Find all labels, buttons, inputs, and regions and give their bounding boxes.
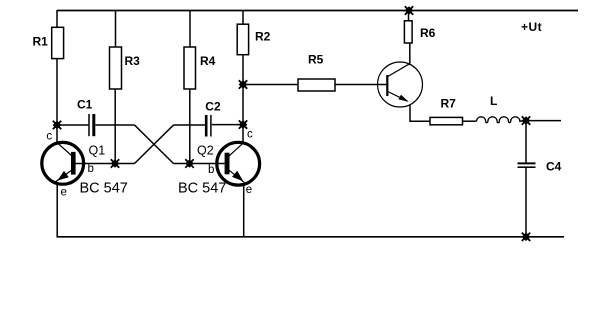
wire top supply rail (57, 10, 578, 12)
wire R5 right lead (335, 84, 387, 86)
resistor R3 (110, 47, 141, 89)
svg-text:c: c (247, 129, 253, 141)
wire output right (526, 120, 561, 122)
capacitor C2 (205, 99, 221, 136)
wire C2 right lead (212, 124, 243, 126)
inductor L (477, 94, 520, 123)
svg-text:c: c (46, 131, 52, 143)
wire Q2 base segment (174, 163, 225, 165)
svg-text:C1: C1 (77, 97, 93, 111)
capacitor C4 (518, 159, 562, 173)
wire R2 top lead (242, 10, 244, 24)
svg-text:+Ut: +Ut (521, 20, 542, 34)
wire Q2 emitter lead (243, 185, 245, 237)
wire R4 bottom lead (189, 89, 191, 164)
svg-text:R7: R7 (441, 97, 457, 111)
wire C4 bottom lead (525, 168, 527, 237)
wire cross-coupling diagonal C1 to Q2 base (135, 125, 174, 164)
svg-text:R2: R2 (255, 29, 271, 43)
wire L right lead (519, 120, 526, 123)
wire R5 left lead (243, 84, 298, 86)
transistor Q1 (42, 142, 84, 184)
wire R6 top lead (408, 10, 410, 21)
node Q1 collector junction (53, 121, 61, 129)
wire Q1 base segment (76, 163, 135, 165)
wire C1 right lead (95, 124, 134, 126)
svg-text:R3: R3 (125, 54, 141, 68)
node R2 / R5 junction (239, 80, 247, 88)
svg-text:BC 547: BC 547 (80, 180, 128, 196)
svg-text:BC 547: BC 547 (178, 180, 226, 196)
wire C2 left lead (174, 124, 206, 126)
resistor R7 (430, 97, 463, 125)
capacitor C1 (77, 97, 94, 136)
resistor R1 (33, 27, 64, 58)
transistor Q2 (217, 142, 260, 185)
transistor Q3 (378, 62, 423, 107)
wire R1 bottom lead (56, 59, 58, 125)
wire bottom ground rail (57, 236, 565, 238)
svg-text:Q1: Q1 (89, 143, 106, 157)
resistor R4 (184, 47, 216, 89)
svg-text:e: e (246, 184, 252, 196)
svg-text:L: L (490, 94, 497, 108)
node Q2 base junction (185, 159, 193, 167)
wire C1 left lead (57, 124, 88, 126)
resistor R2 (237, 24, 270, 55)
resistor R5 (298, 53, 335, 92)
svg-text:R6: R6 (420, 26, 436, 40)
wire R2 bottom lead (242, 55, 244, 125)
wire Q1 emitter lead (56, 185, 58, 237)
resistor R6 (404, 21, 435, 43)
wire C4 top lead (525, 121, 527, 163)
wire Q2 collector lead (242, 125, 244, 143)
wire R4 top lead (189, 10, 191, 47)
svg-text:b: b (88, 163, 94, 175)
svg-text:C2: C2 (205, 99, 221, 113)
wire R3 top lead (115, 10, 117, 47)
node Q2 collector junction (239, 120, 247, 128)
wire R7 right lead (463, 120, 477, 122)
svg-text:R1: R1 (33, 34, 49, 48)
wire R1 top lead (56, 10, 58, 27)
wire Q3 collector lead (409, 43, 411, 63)
svg-text:b: b (208, 164, 214, 176)
svg-text:Q2: Q2 (197, 143, 214, 157)
wire cross-coupling diagonal Q1 base to C2 (135, 125, 174, 164)
node output junction L / C4 (522, 116, 530, 124)
svg-text:e: e (61, 187, 67, 199)
svg-text:R4: R4 (200, 54, 216, 68)
node Q1 base junction (111, 159, 119, 167)
svg-text:C4: C4 (546, 159, 562, 173)
svg-text:R5: R5 (308, 53, 324, 67)
node bottom rail / C4 junction (522, 233, 530, 241)
junction top rail / R6 (405, 6, 413, 14)
wire Q3 emitter lead (410, 105, 430, 122)
wire Q1 collector lead (56, 125, 58, 143)
wire R3 bottom lead (114, 89, 116, 164)
